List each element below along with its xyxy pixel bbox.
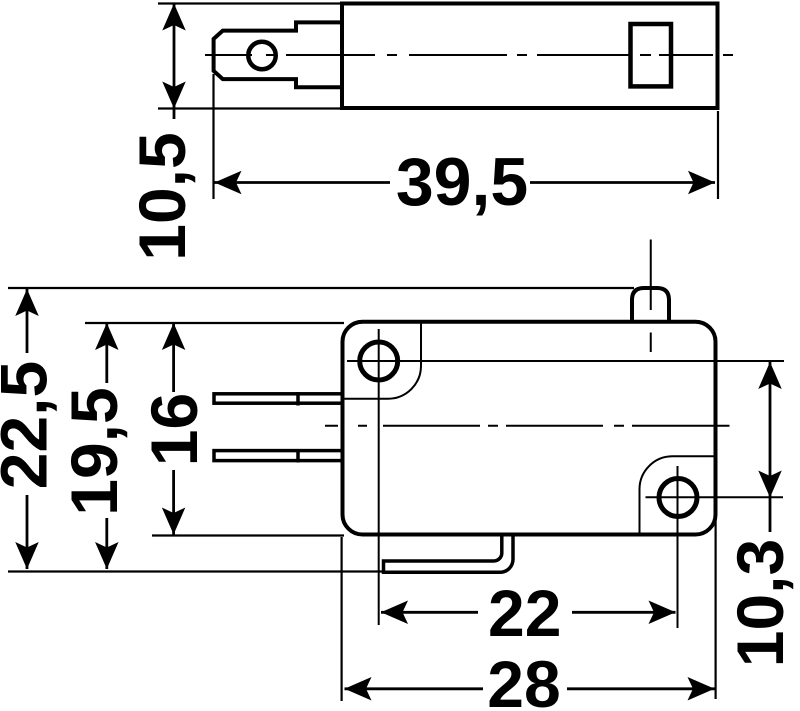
arrow up 10,5 xyxy=(162,4,186,31)
crosshair vertical / extension line 22 right xyxy=(677,466,679,628)
front view: horizontal centerline xyxy=(325,425,730,427)
top view: left blade terminal outline xyxy=(214,22,342,87)
arrow down 22,5 xyxy=(15,542,39,569)
svg-text:39,5: 39,5 xyxy=(396,144,528,220)
dimension line 39,5 xyxy=(215,181,391,184)
dimension line 10,3 xyxy=(769,362,772,532)
svg-text:22: 22 xyxy=(488,576,561,650)
arrow down 16 xyxy=(162,508,186,535)
svg-text:10,3: 10,3 xyxy=(723,539,797,667)
extension line 28 left xyxy=(341,537,343,701)
arrow right 39,5 xyxy=(688,171,715,195)
arrow left 39,5 xyxy=(215,171,242,195)
front view: plunger button xyxy=(632,288,669,323)
svg-text:10,5: 10,5 xyxy=(125,132,199,260)
dimension line 28 xyxy=(345,687,484,690)
svg-text:19,5: 19,5 xyxy=(57,387,131,515)
front view: mounting hole top-left xyxy=(360,342,398,380)
upper terminal notch tick xyxy=(296,392,300,406)
arrow left 22 xyxy=(381,601,408,625)
front view: switch body rounded rectangle xyxy=(343,322,716,535)
svg-text:16: 16 xyxy=(137,393,211,466)
arrow up 19,5 xyxy=(95,323,119,350)
arrow up 16 xyxy=(162,323,186,350)
top view: switch body rectangle xyxy=(342,4,718,109)
front view: bent bottom terminal xyxy=(384,535,514,572)
front view: lower left terminal xyxy=(214,451,343,461)
front view: interior corner line bottom-right xyxy=(640,456,715,533)
extension line 22,5/19,5 bottom (terminal bottom level) xyxy=(8,570,384,572)
top view: hole in right of body xyxy=(631,24,672,86)
crosshair vertical / extension line 22 left xyxy=(378,329,380,625)
front view: interior corner line top-left xyxy=(344,324,421,399)
extension line 39,5 left xyxy=(212,74,214,199)
extension line 16 bottom (body bottom level) xyxy=(152,534,344,536)
top view: terminal hole xyxy=(248,42,276,70)
svg-text:22,5: 22,5 xyxy=(0,361,61,489)
extension line 28 right xyxy=(714,509,716,699)
dimension line 19,5 xyxy=(105,323,108,383)
dimension line 10,5 xyxy=(173,4,176,120)
front view: button centerline xyxy=(650,240,652,311)
arrow down 10,3 xyxy=(758,471,782,498)
extension line 19,5/16 top (body top level) xyxy=(85,322,344,324)
top view: horizontal centerline xyxy=(205,54,733,56)
extension line top (10,5 upper) xyxy=(158,2,344,4)
arrow left 28 xyxy=(345,677,372,701)
arrow right 28 xyxy=(688,677,715,701)
extension line 22,5 top (button top level) xyxy=(8,287,634,289)
dimension line 22 xyxy=(381,611,478,614)
front view: upper left terminal xyxy=(214,394,343,403)
dimension line 22,5 xyxy=(26,289,29,353)
extension line 39,5 right xyxy=(717,111,719,199)
arrow down 10,5 xyxy=(162,82,186,109)
arrow up 22,5 xyxy=(15,289,39,316)
extension line bottom (10,5 lower) xyxy=(158,107,344,109)
lower terminal notch tick xyxy=(296,449,300,463)
arrow down 19,5 xyxy=(95,542,119,569)
crosshair horizontal / extension line 10,3 bottom xyxy=(646,496,784,498)
crosshair horizontal / extension line 10,3 top xyxy=(347,360,784,362)
front view: mounting hole bottom-right xyxy=(659,479,697,517)
arrow right 22 xyxy=(649,601,676,625)
svg-text:28: 28 xyxy=(487,647,560,711)
dimension line 16 xyxy=(172,323,175,392)
arrow up 10,3 xyxy=(758,362,782,389)
